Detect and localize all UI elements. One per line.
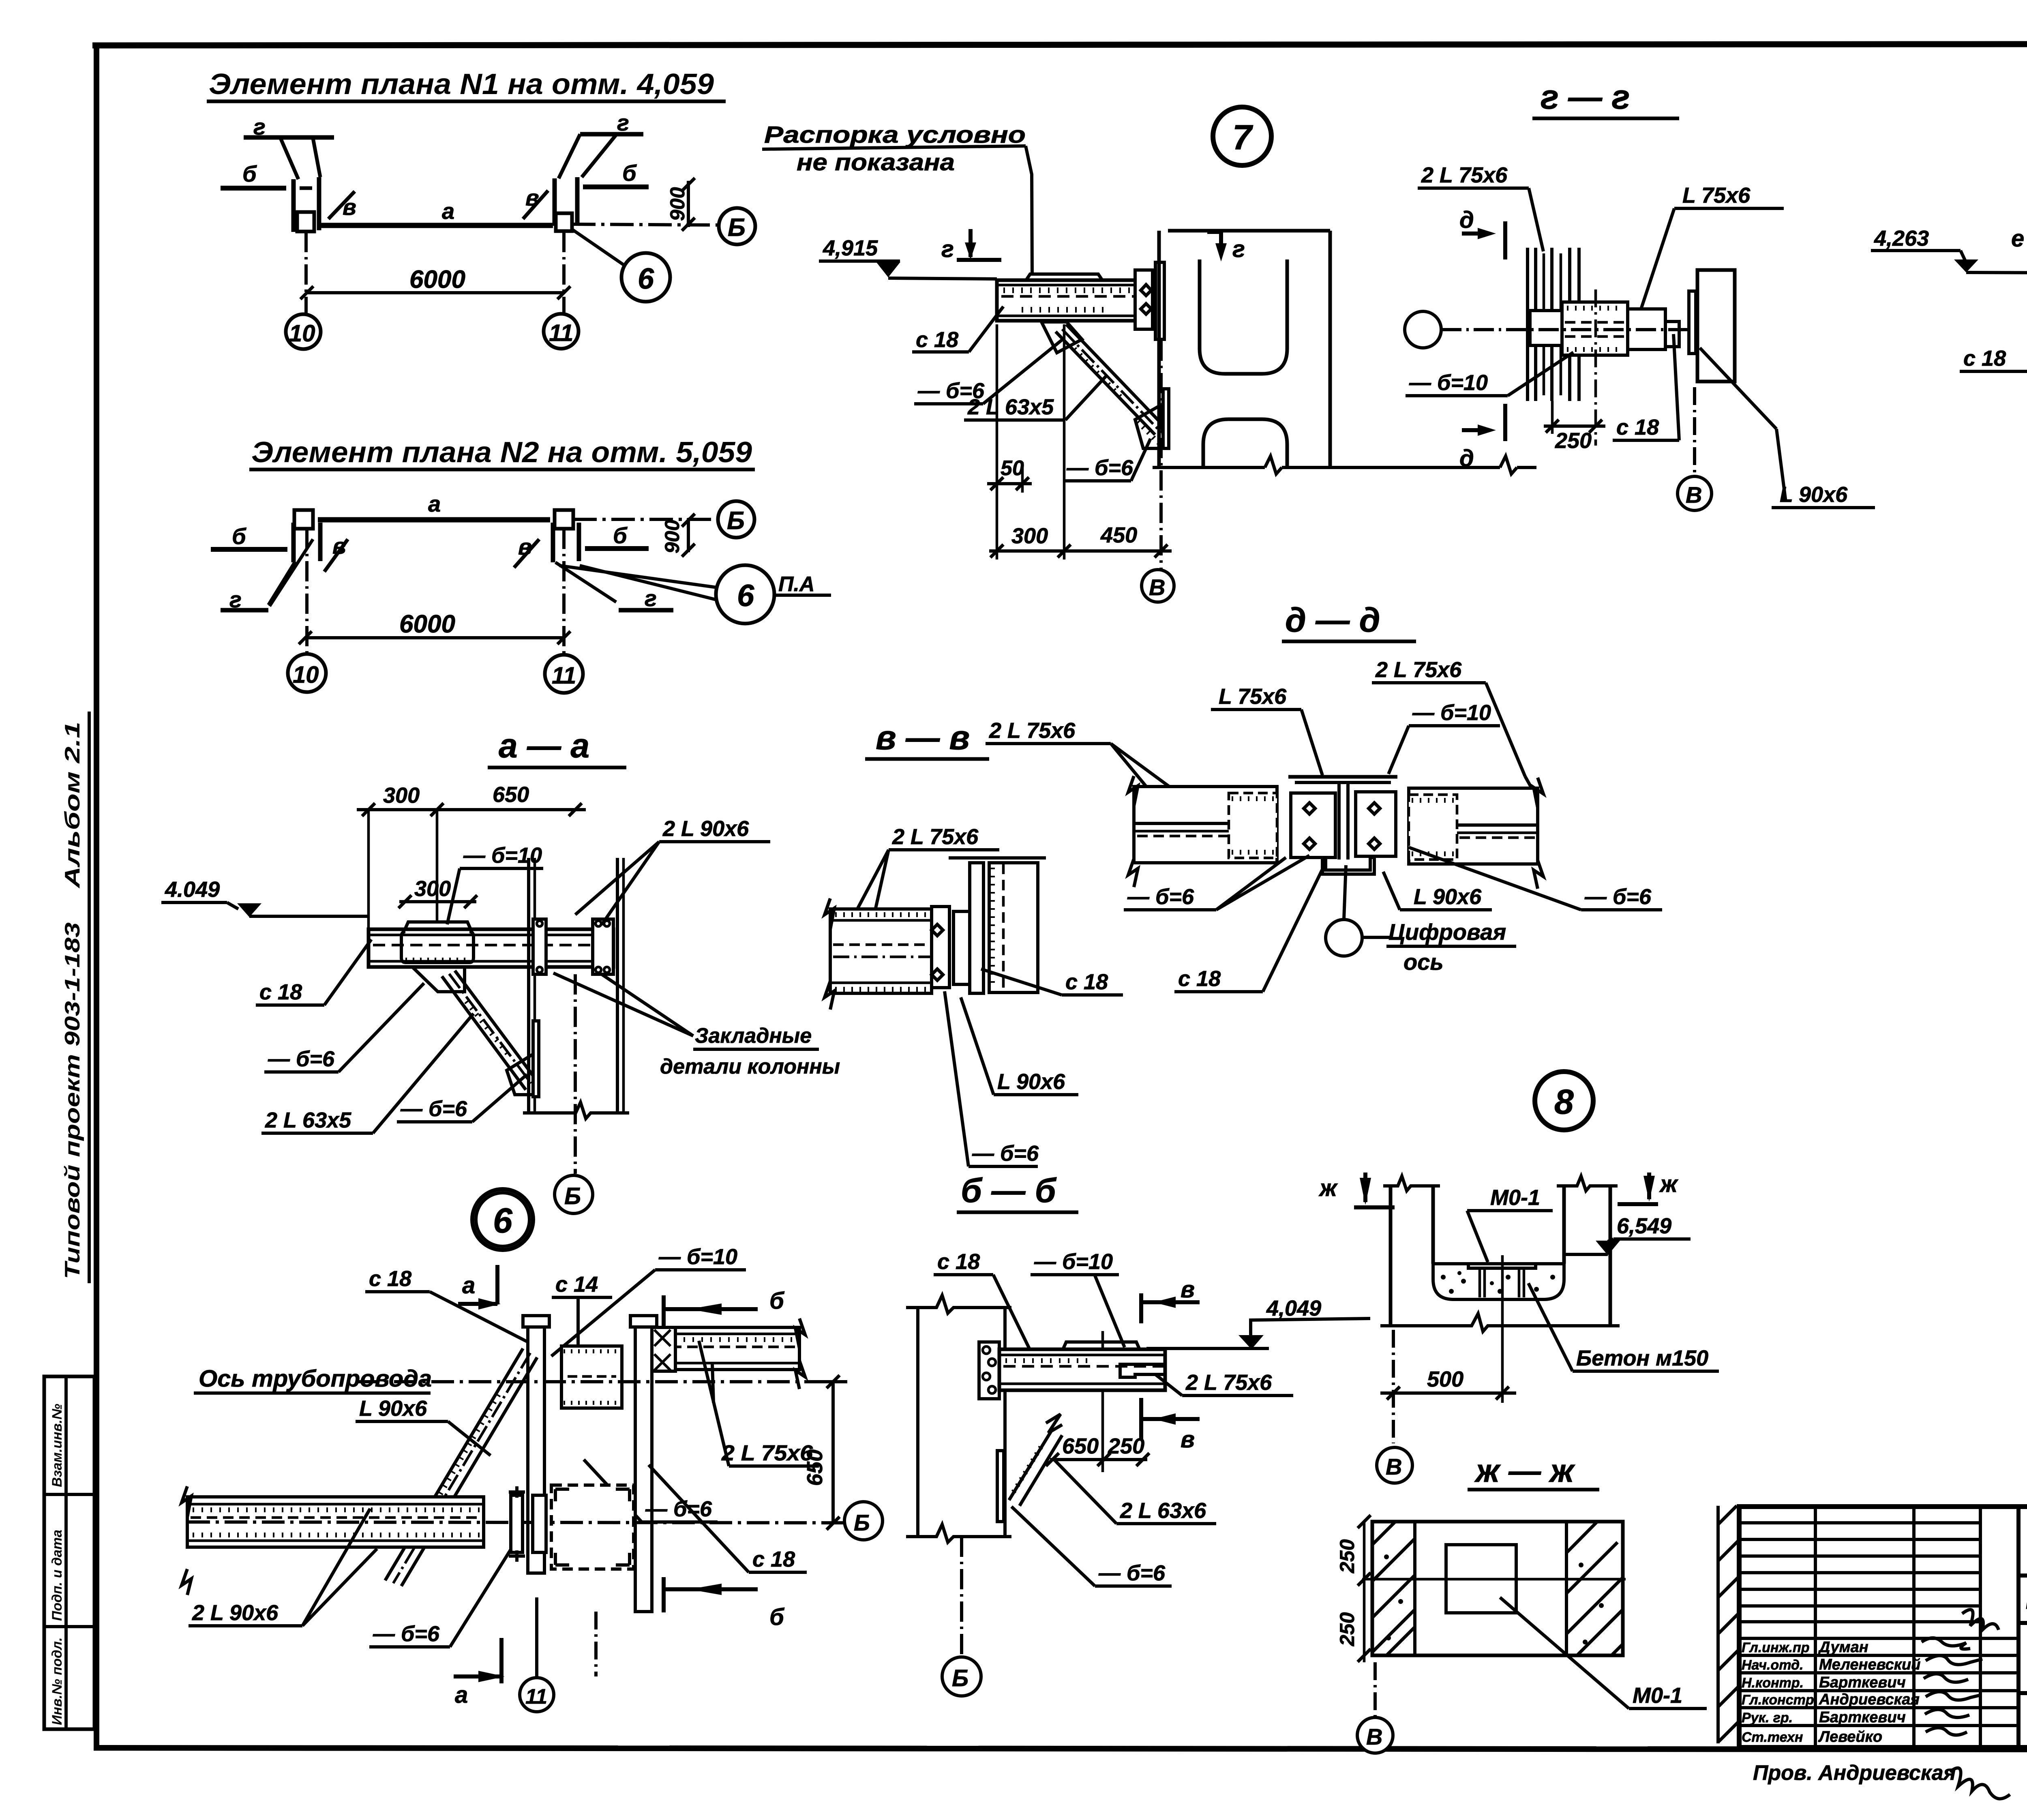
svg-text:Андриевская: Андриевская — [1819, 1691, 1920, 1708]
svg-text:10: 10 — [293, 662, 319, 688]
column flange — [970, 863, 984, 993]
weld tick texture — [1003, 287, 1133, 293]
svg-text:6: 6 — [737, 579, 754, 613]
beam C18 (b-b) — [999, 1349, 1165, 1390]
svg-text:Думан: Думан — [1818, 1639, 1868, 1656]
wall axis dash-dot to bubble Б — [960, 1537, 963, 1656]
concrete dots — [1441, 1271, 1555, 1294]
svg-text:Ст.техн: Ст.техн — [1742, 1730, 1803, 1745]
axis dash-dot — [1441, 328, 1689, 331]
gusset b=6 under beam — [1041, 322, 1082, 353]
svg-text:8: 8 — [1554, 1083, 1574, 1121]
svg-text:а: а — [462, 1272, 475, 1299]
section mark а (bottom) — [454, 1674, 501, 1679]
svg-text:Бетон м150: Бетон м150 — [1576, 1346, 1708, 1370]
svg-text:2 L 75x6: 2 L 75x6 — [892, 825, 979, 849]
svg-text:6000: 6000 — [399, 610, 455, 638]
svg-text:б: б — [242, 161, 257, 187]
svg-text:с 14: с 14 — [555, 1272, 598, 1297]
svg-text:е: е — [2011, 225, 2024, 252]
svg-text:а: а — [455, 1682, 468, 1708]
sidebar table — [44, 1376, 94, 1729]
svg-text:6000: 6000 — [409, 266, 465, 294]
svg-text:с 18: с 18 — [1065, 970, 1108, 994]
svg-text:в: в — [343, 194, 356, 220]
svg-text:650: 650 — [803, 1449, 827, 1486]
svg-text:в: в — [518, 534, 532, 560]
svg-text:2 L 90x6: 2 L 90x6 — [192, 1601, 279, 1625]
diagonal brace 2L63x5 — [1056, 332, 1155, 435]
grid bubble Б — [555, 1175, 593, 1213]
svg-text:в: в — [525, 185, 539, 210]
svg-text:6: 6 — [638, 263, 654, 295]
svg-text:— б=6: — б=6 — [1066, 456, 1133, 480]
trench left wall — [1389, 1186, 1393, 1326]
svg-text:с 18: с 18 — [752, 1547, 795, 1571]
axis line б (left) — [221, 186, 286, 191]
column K10 (plan) — [281, 138, 298, 179]
svg-text:Б: Б — [727, 507, 745, 535]
node bubble 6 (double ring) — [472, 1189, 533, 1250]
svg-text:650: 650 — [493, 782, 529, 807]
svg-text:50: 50 — [1001, 457, 1024, 480]
diagonal to section г (right) — [555, 562, 616, 602]
svg-text:д: д — [1459, 207, 1474, 233]
svg-text:с 18: с 18 — [937, 1250, 980, 1274]
svg-text:ось: ось — [1403, 949, 1444, 975]
section mark г (right top) — [1207, 230, 1221, 234]
svg-text:500: 500 — [1427, 1367, 1463, 1391]
svg-text:Б: Б — [952, 1665, 969, 1691]
left beam (channel pair) — [1134, 787, 1277, 863]
svg-text:ж: ж — [1318, 1175, 1338, 1201]
embedded plate left face — [533, 919, 546, 974]
plate b=10 bump on beam — [405, 922, 471, 929]
sidebar stamp text underline — [88, 712, 91, 1283]
svg-text:г: г — [229, 587, 242, 612]
dim 900 (vertical) — [687, 518, 690, 552]
svg-text:11: 11 — [525, 1685, 547, 1709]
column face plate — [1155, 262, 1164, 339]
svg-text:Альбом 2.1: Альбом 2.1 — [61, 722, 84, 889]
C18 channel box (lower, dashed) — [551, 1485, 634, 1569]
svg-text:— б=6: — б=6 — [268, 1047, 335, 1071]
grid bubble 11 — [545, 655, 583, 693]
bracket 2L75x6 at beam end — [1120, 1364, 1165, 1377]
leader to node 6 bubble — [573, 230, 625, 266]
svg-text:Н.контр.: Н.контр. — [1742, 1675, 1804, 1691]
beam a (plan) — [318, 223, 553, 228]
C14 channel box (upper) — [561, 1346, 622, 1408]
svg-text:б: б — [769, 1604, 785, 1630]
svg-text:с 18: с 18 — [916, 328, 958, 352]
MO-1 plate (plan) — [1446, 1545, 1516, 1613]
svg-text:Закладные: Закладные — [695, 1024, 812, 1048]
dim 900 (vertical) — [687, 181, 690, 227]
svg-text:L 90x6: L 90x6 — [997, 1070, 1065, 1094]
svg-text:Б: Б — [854, 1510, 870, 1535]
splice plates — [932, 907, 949, 988]
svg-text:250: 250 — [1108, 1434, 1144, 1458]
ground line with break — [1380, 1314, 1620, 1331]
beam a (plan) — [318, 517, 550, 523]
svg-text:4,915: 4,915 — [823, 236, 878, 260]
horizontal angle body — [1562, 302, 1628, 355]
lower gusset b=6 on column — [1135, 405, 1164, 448]
beam C18 (node7) — [997, 280, 1136, 321]
section letter в (left) — [328, 191, 355, 219]
node square on column 10 — [294, 510, 313, 529]
svg-text:— б=10: — б=10 — [658, 1245, 737, 1269]
axis Б dash-dot to circle — [573, 518, 717, 521]
svg-text:ж — ж: ж — ж — [1474, 1453, 1575, 1489]
svg-text:Элемент плана N2 на отм. 5: Элемент плана N2 на отм. 5,059 — [251, 436, 752, 469]
dim 300 450 — [989, 549, 1172, 553]
I-beam web — [1337, 782, 1341, 860]
node bubble 7 — [1213, 107, 1271, 165]
svg-text:Взам.инв.№: Взам.инв.№ — [49, 1404, 65, 1487]
signature table rows (upper empty) — [1739, 1521, 1980, 1524]
paired angles seen on edge (vertical lines) — [1526, 248, 1529, 401]
svg-text:4.049: 4.049 — [165, 877, 220, 902]
plate b=10 block on axis — [1530, 311, 1562, 345]
svg-text:10: 10 — [289, 320, 315, 347]
svg-text:2 L 63x6: 2 L 63x6 — [1120, 1498, 1206, 1523]
axis Б dash-dot to circle — [572, 224, 717, 225]
dim 650 (vertical right) — [831, 1382, 835, 1523]
dim line 6000 — [305, 636, 564, 639]
section mark в (lower) — [1139, 1398, 1143, 1440]
svg-text:2 L 75x6: 2 L 75x6 — [721, 1441, 813, 1465]
bottom channel c18 — [1322, 857, 1374, 874]
end plate at wall — [1665, 322, 1679, 347]
svg-text:г — г: г — г — [1541, 78, 1630, 116]
gusset on column face — [533, 1021, 539, 1097]
svg-text:В: В — [1149, 575, 1165, 600]
svg-text:в: в — [332, 533, 346, 559]
beam end plate — [1135, 270, 1153, 329]
svg-text:М0-1: М0-1 — [1490, 1185, 1540, 1210]
diagonal to section г (left) — [268, 562, 295, 605]
svg-text:4,263: 4,263 — [1874, 226, 1929, 251]
node square on column 10 — [297, 212, 314, 232]
splice plate right — [1356, 792, 1396, 856]
dim 300 (plate) — [399, 900, 476, 903]
signature table columns — [1814, 1507, 1817, 1747]
right beam 2L75x6 — [652, 1327, 799, 1370]
svg-text:с 18: с 18 — [259, 980, 302, 1004]
svg-text:Ось трубопровода: Ось трубопровода — [199, 1366, 432, 1392]
svg-text:— б=6: — б=6 — [1127, 885, 1194, 909]
dim line 6000 — [307, 291, 564, 294]
svg-text:б — б: б — б — [961, 1171, 1057, 1209]
leader wires to embedded plates — [553, 973, 693, 1036]
plate b=10 bump on beam — [1063, 1342, 1140, 1349]
wall bracket strip — [1689, 291, 1696, 354]
svg-text:Левейко: Левейко — [1818, 1728, 1882, 1745]
connection axis dash-dot vertical — [1594, 289, 1597, 446]
section mark б (upper) — [662, 1295, 666, 1334]
svg-text:L 75x6: L 75x6 — [1682, 183, 1751, 208]
svg-text:Гл.инж.пр: Гл.инж.пр — [1742, 1640, 1810, 1655]
svg-text:б: б — [232, 523, 246, 549]
svg-text:Барткевич: Барткевич — [1819, 1709, 1906, 1726]
svg-text:ж: ж — [1659, 1171, 1679, 1197]
extension lines — [996, 324, 999, 560]
section trace в line — [1101, 1331, 1104, 1472]
splice plate left — [1291, 793, 1335, 857]
border left — [94, 43, 99, 1751]
axis Б dash-dot — [187, 1522, 844, 1523]
svg-text:250: 250 — [1336, 1612, 1358, 1646]
column K11 (plan) — [559, 134, 580, 178]
svg-text:М0-1: М0-1 — [1633, 1683, 1682, 1708]
svg-text:— б=6: — б=6 — [1584, 885, 1652, 909]
svg-text:2 L 75x6: 2 L 75x6 — [1375, 658, 1462, 682]
svg-text:Барткевич: Барткевич — [1819, 1674, 1906, 1691]
svg-text:Б: Б — [728, 214, 746, 242]
svg-text:— б=10: — б=10 — [1412, 701, 1491, 725]
svg-text:Инв.№ подл.: Инв.№ подл. — [49, 1637, 65, 1725]
svg-text:В: В — [1366, 1724, 1382, 1749]
border top — [92, 44, 2027, 45]
dim 300 650 (top) — [357, 808, 586, 811]
svg-text:в: в — [1181, 1276, 1195, 1303]
extension dash-dot to grid 10 — [305, 529, 309, 654]
svg-text:L 90x6: L 90x6 — [1414, 885, 1482, 909]
joint plates b=6 — [511, 1495, 523, 1552]
centre top flange plate b=10 — [1288, 775, 1397, 779]
svg-text:не показана: не показана — [797, 149, 955, 176]
plan view trench (zh-zh) — [1372, 1522, 1623, 1655]
svg-text:650: 650 — [1062, 1434, 1099, 1458]
centre lines — [1362, 1578, 1626, 1581]
svg-text:а — а: а — а — [499, 727, 589, 765]
svg-text:детали колонны: детали колонны — [660, 1055, 840, 1078]
svg-text:L 90x6: L 90x6 — [1780, 482, 1848, 507]
grid bubble Б (right) — [844, 1502, 883, 1540]
node square on column 11 — [555, 510, 573, 529]
wall strip (right, plan) — [1716, 1506, 1720, 1743]
svg-text:б: б — [622, 160, 637, 186]
plate b=10 on beam top — [1026, 274, 1102, 280]
column axis to bubble 11 — [594, 1612, 598, 1676]
signature squiggles — [1922, 1638, 1970, 1649]
svg-text:с 18: с 18 — [1616, 415, 1659, 439]
section letter в (right) — [514, 539, 539, 568]
svg-text:Рук. гр.: Рук. гр. — [1742, 1710, 1793, 1726]
svg-text:300: 300 — [1011, 524, 1048, 548]
grid bubble 11 — [520, 1678, 554, 1712]
label L 90x6 (bottom right) — [1700, 348, 1776, 429]
digital axis bubble — [1326, 920, 1362, 956]
svg-text:а: а — [442, 198, 454, 224]
svg-text:с 18: с 18 — [369, 1267, 411, 1291]
svg-text:— б=6: — б=6 — [972, 1141, 1039, 1166]
svg-text:11: 11 — [552, 662, 576, 689]
svg-text:300: 300 — [414, 877, 451, 901]
trench right wall — [1562, 1186, 1566, 1264]
grid bubble В (plan) — [1357, 1717, 1393, 1753]
svg-text:а: а — [428, 491, 441, 517]
svg-text:г: г — [253, 114, 266, 139]
svg-text:300: 300 — [383, 783, 420, 808]
svg-text:— б=6: — б=6 — [373, 1622, 440, 1646]
axis bubble (empty) — [1405, 311, 1441, 348]
grid bubble Б — [942, 1657, 981, 1696]
MO-1 embedded plate — [1468, 1264, 1536, 1268]
svg-text:г: г — [941, 236, 954, 262]
column bottom edge with break — [1153, 456, 1536, 474]
svg-text:б: б — [769, 1288, 785, 1314]
diagonal brace (broken) — [1009, 1429, 1052, 1500]
svg-text:г: г — [1232, 236, 1245, 262]
leader wire to spacer — [1026, 146, 1032, 274]
stamp header: ТП 903-1-183 КМ — [2018, 1573, 2027, 1578]
grid bubble В — [1678, 476, 1712, 510]
node bubble 8 — [1535, 1072, 1593, 1130]
channel section overlay — [401, 932, 474, 963]
bolts (diamonds) — [1141, 285, 1151, 314]
svg-text:900: 900 — [661, 519, 684, 553]
axis line б (right) — [585, 546, 649, 551]
column K11 (plan) — [551, 523, 555, 562]
dim 250 250 — [1363, 1522, 1366, 1662]
dim 250 — [1544, 424, 1605, 428]
diagonal brace L90x6 — [385, 1348, 523, 1580]
connection plates right beam — [652, 1327, 675, 1371]
axis line б (left) — [211, 547, 287, 552]
dim 650 250 — [1050, 1458, 1147, 1461]
svg-text:11: 11 — [549, 320, 573, 346]
column axis dash-dot to bubble Б — [574, 974, 577, 1174]
section mark д (lower) — [1503, 404, 1507, 441]
node bubble 6 — [621, 253, 670, 302]
section line г (right) — [580, 132, 643, 137]
section letter в (left) — [324, 539, 348, 572]
svg-text:6,549: 6,549 — [1617, 1214, 1671, 1238]
svg-text:L 90x6: L 90x6 — [359, 1396, 427, 1421]
column face strip (lower) — [1163, 389, 1169, 448]
svg-text:Распорка условно: Распорка условно — [764, 122, 1026, 148]
splice cover plate (left, dashed+ticks) — [1229, 793, 1277, 858]
main stamp outer — [1739, 1507, 2027, 1747]
svg-text:Подп. и дата: Подп. и дата — [49, 1530, 65, 1621]
svg-text:4,049: 4,049 — [1266, 1296, 1321, 1321]
node bubble 6 п.А — [716, 565, 774, 624]
angle L75 outer part — [1628, 309, 1665, 349]
svg-text:2 L 63x5: 2 L 63x5 — [967, 395, 1054, 419]
svg-text:с 18: с 18 — [1963, 346, 2006, 371]
grid bubble 10 — [286, 314, 321, 349]
svg-text:2 L 63x5: 2 L 63x5 — [265, 1108, 351, 1132]
svg-text:2 L 75x6: 2 L 75x6 — [1421, 163, 1508, 187]
SIDEBAR — [44, 712, 94, 1729]
column flange right — [635, 1316, 652, 1612]
embedded plate right face — [593, 919, 613, 974]
svg-text:б: б — [613, 523, 628, 548]
svg-text:Пров. Андриевская: Пров. Андриевская — [1753, 1761, 1956, 1785]
hatched wall band right — [1565, 1522, 1568, 1655]
gusset b=6 under beam — [412, 967, 465, 992]
gusset plate on wall — [997, 1451, 1004, 1522]
axis line б (right) — [583, 184, 649, 189]
svg-text:Гл.констр: Гл.констр — [1742, 1692, 1814, 1708]
grid bubble 10 — [288, 654, 326, 692]
signature rows — [1739, 1637, 2018, 1640]
right beam (channel pair) — [1409, 788, 1538, 864]
svg-text:— б=10: — б=10 — [1034, 1250, 1113, 1274]
axis dash-dot to bubble В — [1693, 387, 1696, 476]
column cap — [949, 856, 1046, 860]
svg-text:— б=6: — б=6 — [400, 1097, 467, 1121]
lower-left beam 2L90x6 — [187, 1497, 484, 1547]
svg-text:в: в — [1181, 1426, 1195, 1453]
note: Распорка условно не показана — [762, 122, 1032, 274]
svg-text:450: 450 — [1100, 523, 1137, 547]
svg-text:Элемент плана N1 на отм. 4: Элемент плана N1 на отм. 4,059 — [209, 68, 714, 101]
web opening (top) — [1200, 259, 1287, 374]
column channel C18 — [989, 863, 1038, 993]
svg-text:д — д: д — д — [1285, 601, 1380, 639]
svg-text:2 L 90x6: 2 L 90x6 — [662, 817, 749, 841]
grid bubble В — [1142, 570, 1174, 602]
axis dash-dot to bubble В — [1159, 341, 1163, 569]
extension dash-dot to grid 11 — [562, 232, 566, 313]
node square on column 11 — [556, 213, 572, 231]
svg-text:г: г — [645, 585, 657, 611]
svg-text:250: 250 — [1555, 429, 1592, 453]
svg-text:Меленевский: Меленевский — [1819, 1656, 1920, 1673]
extension dash-dot to grid 10 — [304, 232, 308, 314]
column (wall) rect — [1697, 270, 1735, 382]
svg-text:— б=6: — б=6 — [645, 1497, 712, 1521]
diagonal brace 2L63x5 — [442, 976, 526, 1090]
column (concrete) — [527, 858, 530, 1113]
svg-text:2 L 75x6: 2 L 75x6 — [989, 718, 1076, 743]
column K10 (plan) — [291, 523, 296, 562]
section letter в (right) — [523, 191, 548, 219]
svg-text:с 18: с 18 — [1178, 967, 1221, 991]
concrete floor slab (trench bottom tray) — [1433, 1264, 1564, 1299]
svg-text:— б=6: — б=6 — [1098, 1561, 1166, 1585]
svg-text:Б: Б — [564, 1183, 581, 1209]
extension dash-dot to grid 11 — [562, 529, 566, 654]
svg-text:L 75x6: L 75x6 — [1219, 684, 1287, 709]
svg-text:Типовой проект 903-1-183: Типовой проект 903-1-183 — [61, 922, 84, 1279]
leaders to node 6 bubble — [559, 566, 726, 589]
svg-text:д: д — [1459, 445, 1474, 472]
grid bubble В — [1377, 1447, 1412, 1483]
beam (broken at left) — [830, 909, 932, 993]
border bottom — [94, 1748, 2027, 1750]
svg-text:в — в: в — в — [876, 718, 970, 757]
beam C18 (a-a) — [369, 929, 613, 967]
section mark в (upper) — [1139, 1293, 1143, 1323]
grid bubble 11 — [544, 314, 579, 349]
svg-text:П.А: П.А — [778, 572, 814, 596]
svg-text:7: 7 — [1232, 118, 1253, 157]
svg-text:900: 900 — [666, 187, 689, 221]
svg-text:г: г — [617, 110, 629, 135]
svg-text:В: В — [1686, 482, 1702, 508]
hatched wall band left — [1372, 1522, 1415, 1655]
anchor plate with concrete dots — [979, 1342, 999, 1399]
svg-text:Цифровая: Цифровая — [1388, 919, 1506, 945]
wall (broken) — [916, 1308, 919, 1537]
section mark б (lower) — [662, 1577, 666, 1612]
svg-text:2 L 75x6: 2 L 75x6 — [1185, 1370, 1272, 1395]
